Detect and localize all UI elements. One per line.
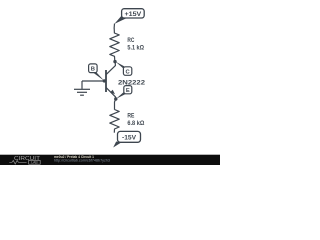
- wire base: [82, 80, 106, 82]
- CircuitLab logo: [9, 156, 41, 164]
- node B flag: [89, 64, 105, 81]
- resistor R1 RC: [110, 28, 119, 61]
- wire from +15V to RC: [113, 24, 115, 29]
- svg-text:2N2222: 2N2222: [118, 79, 145, 86]
- svg-text:E: E: [126, 88, 130, 94]
- resistor R2 RE: [110, 110, 119, 133]
- node E junction dot: [114, 97, 117, 100]
- node B junction dot: [103, 79, 106, 82]
- power flag -15V: [113, 131, 140, 147]
- svg-text:RE: RE: [127, 113, 134, 120]
- ground: [74, 81, 90, 95]
- node E flag: [116, 86, 132, 99]
- svg-text:-15V: -15V: [122, 134, 137, 141]
- wire emitter to RE: [115, 99, 116, 110]
- svg-text:5.1 kΩ: 5.1 kΩ: [127, 45, 144, 52]
- wire collector: [106, 62, 115, 75]
- svg-text:LAB: LAB: [31, 161, 38, 165]
- node C flag: [116, 62, 132, 76]
- node C junction dot: [113, 60, 116, 63]
- svg-text:B: B: [91, 67, 95, 73]
- transistor Q1 emitter with arrow: [106, 87, 116, 99]
- transistor Q1 base bar: [105, 70, 107, 92]
- footer bar: [0, 155, 220, 165]
- svg-text:http://circuitlab.com/c6f748b7: http://circuitlab.com/c6f748b7yzh3: [54, 159, 110, 163]
- svg-text:+15V: +15V: [125, 11, 143, 18]
- svg-text:RC: RC: [127, 37, 134, 44]
- svg-text:6.8 kΩ: 6.8 kΩ: [127, 120, 145, 127]
- power flag +15V: [114, 9, 144, 24]
